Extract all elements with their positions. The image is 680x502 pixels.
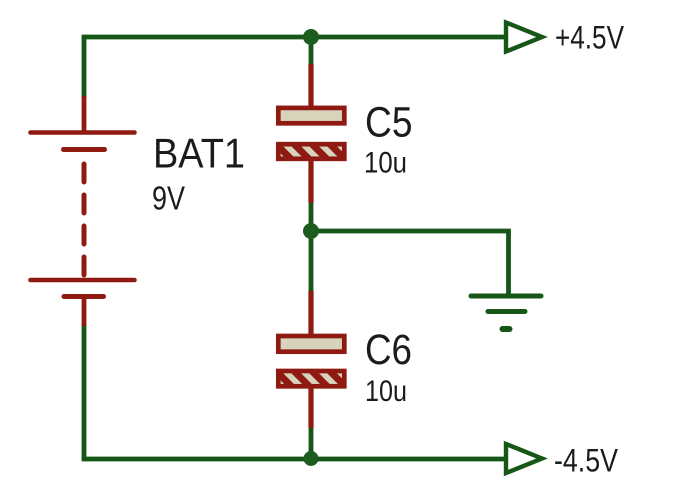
capacitor C5 top plate [278, 108, 344, 123]
junction node top [303, 29, 319, 45]
capacitor C6 hatched plate [264, 368, 358, 390]
wire C6 bottom pin to bottom node [309, 426, 314, 459]
battery BAT1 bottom pin lead [82, 297, 87, 327]
capacitor C6 bottom pin lead [308, 387, 313, 428]
wire mid node to ground [311, 231, 509, 298]
svg-text:C6: C6 [365, 326, 412, 374]
battery BAT1 cell2 short plate [64, 294, 104, 299]
capacitor C6 top pin lead [308, 291, 313, 336]
ground symbol [471, 296, 541, 329]
capacitor C5 bottom pin lead [308, 160, 313, 203]
wire bottom rail from battery to -4.5V arrow [84, 324, 506, 459]
capacitor C5 top pin lead [308, 64, 313, 107]
svg-text:+4.5V: +4.5V [555, 20, 624, 56]
wire C5 bottom pin to mid node [309, 201, 314, 231]
svg-text:-4.5V: -4.5V [554, 443, 618, 479]
battery BAT1 cell2 long plate [31, 278, 135, 283]
power terminal arrow -4.5V [506, 444, 542, 473]
svg-text:9V: 9V [152, 180, 185, 217]
wire top node to C5 top pin [309, 37, 314, 66]
svg-text:10u: 10u [364, 147, 407, 180]
wire mid node to C6 top pin [309, 231, 314, 293]
battery BAT1 cell1 short plate [64, 147, 105, 152]
power terminal arrow +4.5V [506, 23, 542, 52]
battery BAT1 dashed link [82, 164, 87, 280]
svg-text:C5: C5 [365, 99, 413, 147]
svg-text:10u: 10u [365, 375, 407, 408]
battery BAT1 top pin lead [82, 96, 87, 134]
capacitor C5 hatched plate [264, 141, 358, 163]
capacitor C6 top plate [278, 336, 344, 352]
junction node mid [303, 223, 319, 239]
battery BAT1 cell1 long plate [31, 130, 135, 135]
junction node bottom [304, 451, 319, 466]
svg-text:BAT1: BAT1 [153, 130, 245, 177]
wire top rail from battery corner to +4.5V arrow [84, 37, 506, 98]
